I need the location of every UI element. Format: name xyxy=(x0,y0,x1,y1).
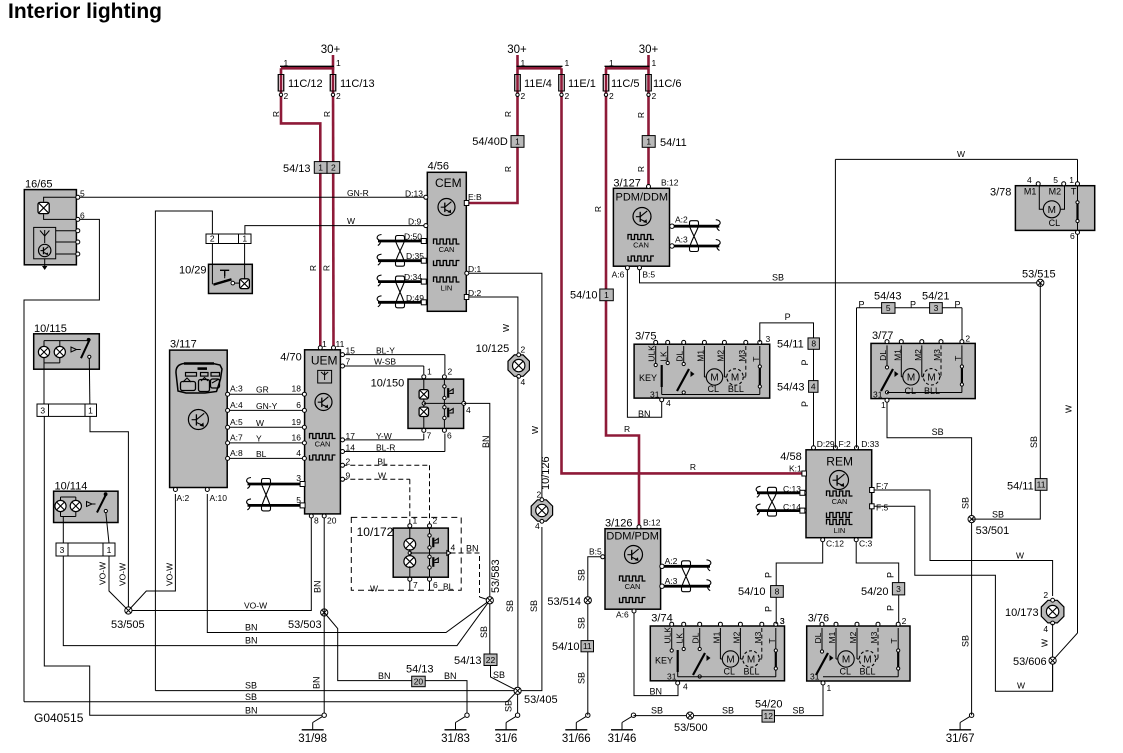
svg-text:53/500: 53/500 xyxy=(674,722,708,734)
svg-text:2: 2 xyxy=(965,334,970,344)
svg-text:2: 2 xyxy=(565,91,570,101)
svg-text:SB: SB xyxy=(504,700,514,712)
svg-text:G040515: G040515 xyxy=(34,711,84,725)
svg-text:A:5: A:5 xyxy=(230,417,243,427)
svg-text:P: P xyxy=(955,300,961,310)
svg-text:53/514: 53/514 xyxy=(547,596,581,608)
svg-text:11: 11 xyxy=(1037,479,1046,489)
svg-text:BN: BN xyxy=(481,435,491,448)
svg-text:54/11: 54/11 xyxy=(1007,481,1034,493)
svg-text:4: 4 xyxy=(1043,624,1048,634)
svg-text:31/67: 31/67 xyxy=(946,733,975,745)
svg-text:8: 8 xyxy=(811,339,816,349)
svg-text:5: 5 xyxy=(80,189,85,199)
svg-text:A:6: A:6 xyxy=(612,270,625,280)
svg-text:P: P xyxy=(785,312,791,322)
svg-text:1: 1 xyxy=(322,339,327,349)
svg-text:1: 1 xyxy=(827,683,832,693)
svg-text:53/515: 53/515 xyxy=(1022,269,1056,281)
svg-text:A:7: A:7 xyxy=(230,432,243,442)
svg-text:CEM: CEM xyxy=(435,176,462,190)
svg-text:BLL: BLL xyxy=(924,386,940,396)
svg-text:54/43: 54/43 xyxy=(777,382,805,394)
svg-text:1: 1 xyxy=(88,406,93,416)
svg-text:2: 2 xyxy=(433,516,438,526)
svg-text:53/501: 53/501 xyxy=(976,525,1010,537)
svg-text:Y: Y xyxy=(256,433,262,443)
svg-text:M: M xyxy=(927,372,935,383)
svg-text:BN: BN xyxy=(312,676,322,689)
svg-text:11E/4: 11E/4 xyxy=(524,78,552,90)
svg-text:DDM/PDM: DDM/PDM xyxy=(606,531,659,543)
svg-text:1: 1 xyxy=(604,290,609,300)
svg-text:6: 6 xyxy=(296,400,301,410)
svg-text:11: 11 xyxy=(336,339,345,349)
svg-text:P: P xyxy=(886,572,896,578)
svg-text:R: R xyxy=(636,166,646,172)
svg-text:W: W xyxy=(256,418,264,428)
svg-text:4: 4 xyxy=(535,521,540,531)
svg-text:2: 2 xyxy=(521,345,526,355)
svg-text:CL: CL xyxy=(724,667,736,677)
svg-text:2: 2 xyxy=(346,456,351,466)
svg-text:3/76: 3/76 xyxy=(808,613,829,625)
svg-text:SB: SB xyxy=(961,497,971,509)
svg-text:2: 2 xyxy=(210,234,215,244)
svg-text:54/40D: 54/40D xyxy=(472,136,508,148)
svg-text:BN: BN xyxy=(650,687,663,697)
svg-text:E:B: E:B xyxy=(468,192,482,202)
svg-text:10/150: 10/150 xyxy=(371,378,405,390)
svg-text:1: 1 xyxy=(881,400,886,410)
svg-text:A:3: A:3 xyxy=(665,576,678,586)
svg-text:1: 1 xyxy=(521,58,526,68)
svg-text:B:12: B:12 xyxy=(643,518,661,528)
svg-text:54/43: 54/43 xyxy=(874,291,902,303)
svg-text:54/20: 54/20 xyxy=(755,699,783,711)
svg-text:2: 2 xyxy=(284,91,289,101)
svg-text:LIN: LIN xyxy=(834,526,846,535)
svg-text:53/583: 53/583 xyxy=(490,559,502,593)
svg-text:1: 1 xyxy=(646,136,651,146)
svg-text:54/13: 54/13 xyxy=(454,655,482,667)
svg-text:R: R xyxy=(308,265,318,271)
svg-text:1: 1 xyxy=(413,516,418,526)
svg-text:C:12: C:12 xyxy=(826,539,844,549)
svg-text:W: W xyxy=(347,216,355,226)
svg-text:GN-R: GN-R xyxy=(347,188,369,198)
svg-text:54/10: 54/10 xyxy=(738,586,766,598)
svg-text:A:4: A:4 xyxy=(230,400,243,410)
svg-text:CL: CL xyxy=(905,386,917,396)
svg-text:A:10: A:10 xyxy=(210,493,228,503)
svg-text:31/98: 31/98 xyxy=(298,733,327,745)
svg-text:SB: SB xyxy=(651,706,663,716)
svg-text:4: 4 xyxy=(683,682,688,692)
svg-text:M: M xyxy=(747,655,755,666)
svg-text:6: 6 xyxy=(1070,231,1075,241)
svg-text:M: M xyxy=(1048,205,1056,216)
svg-text:10/29: 10/29 xyxy=(179,265,207,277)
svg-text:A:8: A:8 xyxy=(230,448,243,458)
svg-text:2: 2 xyxy=(609,91,614,101)
svg-text:12: 12 xyxy=(764,711,774,721)
svg-text:BN: BN xyxy=(245,636,258,646)
svg-text:3/127: 3/127 xyxy=(613,178,641,190)
svg-text:1: 1 xyxy=(318,162,323,172)
svg-text:1: 1 xyxy=(515,136,520,146)
svg-text:20: 20 xyxy=(327,516,337,526)
svg-text:4/56: 4/56 xyxy=(428,161,449,173)
svg-text:R: R xyxy=(503,166,513,172)
svg-text:3/78: 3/78 xyxy=(990,187,1011,199)
svg-text:4: 4 xyxy=(666,398,671,408)
svg-text:10/172: 10/172 xyxy=(357,525,394,539)
svg-text:CAN: CAN xyxy=(625,582,641,591)
svg-text:VO-W: VO-W xyxy=(165,563,175,586)
svg-text:54/11: 54/11 xyxy=(660,137,687,149)
svg-text:11C/5: 11C/5 xyxy=(611,78,640,90)
svg-text:6: 6 xyxy=(433,580,438,590)
svg-text:R: R xyxy=(503,111,513,117)
svg-text:CAN: CAN xyxy=(633,241,649,250)
svg-text:GN-Y: GN-Y xyxy=(256,401,278,411)
svg-text:R: R xyxy=(593,206,603,212)
svg-text:SB: SB xyxy=(961,635,971,647)
svg-text:7: 7 xyxy=(427,431,432,441)
svg-text:GR: GR xyxy=(256,385,269,395)
svg-text:2: 2 xyxy=(1043,590,1048,600)
svg-text:F:5: F:5 xyxy=(876,502,889,512)
svg-text:SB: SB xyxy=(577,672,587,684)
svg-text:UEM: UEM xyxy=(311,354,338,368)
svg-text:1: 1 xyxy=(609,58,614,68)
svg-text:11C/12: 11C/12 xyxy=(288,78,323,90)
svg-text:W: W xyxy=(370,584,378,594)
svg-text:A:6: A:6 xyxy=(616,610,629,620)
svg-text:W: W xyxy=(1064,405,1074,413)
svg-text:53/405: 53/405 xyxy=(524,694,558,706)
svg-text:1: 1 xyxy=(427,367,432,377)
svg-text:11E/1: 11E/1 xyxy=(568,78,596,90)
svg-text:4: 4 xyxy=(521,377,526,387)
svg-text:4: 4 xyxy=(1027,175,1032,185)
svg-text:53/503: 53/503 xyxy=(288,619,322,631)
svg-text:CAN: CAN xyxy=(315,440,331,449)
svg-text:11C/6: 11C/6 xyxy=(653,78,682,90)
svg-text:4: 4 xyxy=(811,381,816,391)
svg-text:9: 9 xyxy=(346,470,351,480)
svg-text:SB: SB xyxy=(479,626,489,638)
svg-text:Y-W: Y-W xyxy=(376,431,392,441)
svg-text:P: P xyxy=(859,300,865,310)
svg-text:6: 6 xyxy=(80,211,85,221)
svg-text:P: P xyxy=(800,401,810,407)
svg-text:6: 6 xyxy=(447,431,452,441)
svg-text:31/83: 31/83 xyxy=(441,733,470,745)
svg-text:31/66: 31/66 xyxy=(562,733,591,745)
svg-text:A:3: A:3 xyxy=(675,235,688,245)
svg-text:R: R xyxy=(322,111,332,117)
svg-text:VO-W: VO-W xyxy=(118,563,128,586)
svg-text:31: 31 xyxy=(650,390,660,400)
svg-text:54/20: 54/20 xyxy=(861,586,889,598)
svg-text:54/10: 54/10 xyxy=(552,641,580,653)
svg-text:M: M xyxy=(863,655,871,666)
svg-text:BLL: BLL xyxy=(728,384,744,394)
svg-text:BN: BN xyxy=(378,671,391,681)
svg-text:11: 11 xyxy=(583,641,592,651)
svg-text:16: 16 xyxy=(292,432,302,442)
svg-text:CL: CL xyxy=(708,384,720,394)
svg-text:M: M xyxy=(907,372,915,383)
svg-text:4: 4 xyxy=(296,448,301,458)
svg-text:31: 31 xyxy=(667,672,677,682)
svg-text:22: 22 xyxy=(486,655,496,665)
svg-text:2: 2 xyxy=(902,616,907,626)
svg-text:5: 5 xyxy=(886,303,891,313)
svg-text:B:5: B:5 xyxy=(589,547,602,557)
svg-text:53/606: 53/606 xyxy=(1013,656,1047,668)
svg-text:14: 14 xyxy=(346,443,356,453)
svg-text:SB: SB xyxy=(992,510,1004,520)
svg-text:M: M xyxy=(726,655,734,666)
svg-text:W: W xyxy=(1040,639,1050,647)
svg-text:SB: SB xyxy=(932,427,944,437)
svg-text:M1: M1 xyxy=(1024,187,1037,197)
svg-text:10/125: 10/125 xyxy=(476,343,510,355)
svg-text:R: R xyxy=(690,462,696,472)
svg-text:SB: SB xyxy=(577,617,587,629)
svg-text:SB: SB xyxy=(245,692,257,702)
svg-text:W: W xyxy=(1016,551,1024,561)
svg-text:D:33: D:33 xyxy=(861,439,879,449)
svg-text:P: P xyxy=(886,605,896,611)
svg-text:BN: BN xyxy=(245,623,258,633)
svg-text:R: R xyxy=(271,111,281,117)
svg-text:M: M xyxy=(731,373,739,384)
svg-text:W: W xyxy=(1017,681,1025,691)
svg-text:W: W xyxy=(501,324,511,332)
svg-text:Interior lighting: Interior lighting xyxy=(8,0,162,23)
svg-text:1: 1 xyxy=(652,58,657,68)
svg-text:BN: BN xyxy=(245,706,258,716)
svg-text:19: 19 xyxy=(292,417,302,427)
svg-text:D:1: D:1 xyxy=(468,264,482,274)
svg-text:R: R xyxy=(624,424,630,434)
svg-text:BL-R: BL-R xyxy=(376,443,395,453)
svg-text:2: 2 xyxy=(521,91,526,101)
svg-text:B:5: B:5 xyxy=(642,270,655,280)
svg-text:4: 4 xyxy=(451,543,456,553)
svg-text:M: M xyxy=(710,373,718,384)
svg-text:2: 2 xyxy=(331,162,336,172)
svg-text:15: 15 xyxy=(346,346,356,356)
svg-text:T: T xyxy=(1071,187,1077,197)
svg-text:SB: SB xyxy=(722,706,734,716)
svg-text:4/58: 4/58 xyxy=(780,451,801,463)
svg-text:SB: SB xyxy=(1029,436,1039,448)
svg-text:1: 1 xyxy=(107,545,112,555)
svg-text:BN: BN xyxy=(444,671,457,681)
svg-text:3: 3 xyxy=(934,303,939,313)
svg-text:1: 1 xyxy=(284,58,289,68)
svg-text:3/74: 3/74 xyxy=(651,613,672,625)
svg-text:10/126: 10/126 xyxy=(540,456,552,490)
svg-text:R: R xyxy=(322,265,332,271)
svg-text:CAN: CAN xyxy=(832,497,848,506)
svg-text:LIN: LIN xyxy=(441,284,453,293)
svg-text:3: 3 xyxy=(40,406,45,416)
svg-text:54/13: 54/13 xyxy=(406,664,434,676)
svg-text:3/126: 3/126 xyxy=(605,518,633,530)
svg-text:BL: BL xyxy=(256,449,267,459)
svg-text:5: 5 xyxy=(1053,175,1058,185)
svg-text:BL-Y: BL-Y xyxy=(376,346,395,356)
svg-text:VO-W: VO-W xyxy=(244,601,267,611)
svg-text:54/13: 54/13 xyxy=(283,163,311,175)
svg-text:BLL: BLL xyxy=(860,667,876,677)
svg-text:A:2: A:2 xyxy=(177,493,190,503)
svg-text:P: P xyxy=(764,606,774,612)
svg-text:A:2: A:2 xyxy=(675,215,688,225)
svg-text:CAN: CAN xyxy=(439,245,455,254)
svg-text:54/11: 54/11 xyxy=(777,339,804,351)
svg-text:1: 1 xyxy=(565,58,570,68)
svg-text:K:1: K:1 xyxy=(789,464,802,474)
svg-text:SB: SB xyxy=(772,273,784,283)
svg-text:A:3: A:3 xyxy=(230,384,243,394)
svg-text:REM: REM xyxy=(826,455,853,469)
svg-text:53/505: 53/505 xyxy=(111,619,145,631)
svg-text:W: W xyxy=(957,149,965,159)
svg-text:16/65: 16/65 xyxy=(25,179,53,191)
svg-text:4: 4 xyxy=(466,405,471,415)
svg-text:30+: 30+ xyxy=(507,44,527,56)
svg-text:W: W xyxy=(530,426,540,434)
svg-text:BLL: BLL xyxy=(744,667,760,677)
svg-text:W-SB: W-SB xyxy=(374,357,396,367)
svg-text:8: 8 xyxy=(775,586,780,596)
svg-text:54/10: 54/10 xyxy=(570,290,598,302)
svg-text:B:12: B:12 xyxy=(661,178,679,188)
svg-text:3/77: 3/77 xyxy=(872,330,893,342)
svg-text:3: 3 xyxy=(896,584,901,594)
svg-text:C:3: C:3 xyxy=(859,539,873,549)
svg-text:M2: M2 xyxy=(1049,187,1062,197)
svg-text:P: P xyxy=(800,359,810,365)
svg-text:2: 2 xyxy=(652,91,657,101)
svg-text:31/46: 31/46 xyxy=(608,733,637,745)
svg-text:7: 7 xyxy=(413,580,418,590)
svg-text:SB: SB xyxy=(245,681,257,691)
svg-text:1: 1 xyxy=(336,58,341,68)
svg-text:20: 20 xyxy=(414,676,424,686)
svg-text:31: 31 xyxy=(810,672,820,682)
svg-text:BN: BN xyxy=(638,409,651,419)
svg-text:R: R xyxy=(636,112,646,118)
svg-text:7: 7 xyxy=(346,357,351,367)
svg-text:BN: BN xyxy=(466,543,479,553)
svg-text:BL: BL xyxy=(443,582,454,592)
svg-text:30+: 30+ xyxy=(321,44,341,56)
svg-text:3/117: 3/117 xyxy=(170,339,197,351)
svg-text:3: 3 xyxy=(766,334,771,344)
svg-text:17: 17 xyxy=(346,431,356,441)
svg-text:D:9: D:9 xyxy=(408,217,422,227)
svg-text:1: 1 xyxy=(242,234,247,244)
svg-text:M: M xyxy=(842,655,850,666)
svg-text:PDM/DDM: PDM/DDM xyxy=(616,192,669,204)
svg-text:10/173: 10/173 xyxy=(1005,607,1039,619)
svg-text:3: 3 xyxy=(780,616,785,626)
svg-text:30+: 30+ xyxy=(639,44,659,56)
svg-text:VO-W: VO-W xyxy=(98,562,108,585)
svg-text:D:13: D:13 xyxy=(405,189,423,199)
svg-text:2: 2 xyxy=(448,367,453,377)
svg-text:D:29: D:29 xyxy=(817,439,835,449)
svg-text:SB: SB xyxy=(529,600,539,612)
svg-text:F:2: F:2 xyxy=(839,439,852,449)
svg-text:3/75: 3/75 xyxy=(635,331,656,343)
svg-text:P: P xyxy=(764,572,774,578)
svg-text:54/21: 54/21 xyxy=(922,291,950,303)
svg-text:SB: SB xyxy=(793,706,805,716)
svg-text:KEY: KEY xyxy=(655,656,673,666)
svg-text:3: 3 xyxy=(60,545,65,555)
svg-text:CL: CL xyxy=(1049,218,1061,228)
svg-text:1: 1 xyxy=(1069,175,1074,185)
svg-text:8: 8 xyxy=(314,516,319,526)
svg-text:KEY: KEY xyxy=(639,373,657,383)
svg-text:SB: SB xyxy=(577,569,587,581)
svg-text:2: 2 xyxy=(336,91,341,101)
svg-text:11C/13: 11C/13 xyxy=(340,78,375,90)
svg-text:31: 31 xyxy=(873,390,883,400)
svg-text:SB: SB xyxy=(493,670,505,680)
svg-text:31/6: 31/6 xyxy=(495,733,517,745)
svg-text:SB: SB xyxy=(505,600,515,612)
svg-text:A:2: A:2 xyxy=(665,556,678,566)
svg-text:W: W xyxy=(378,470,386,480)
svg-text:P: P xyxy=(910,300,916,310)
svg-text:BN: BN xyxy=(313,580,323,593)
svg-text:CL: CL xyxy=(840,667,852,677)
svg-text:18: 18 xyxy=(292,384,302,394)
svg-text:BL: BL xyxy=(377,456,388,466)
svg-text:4/70: 4/70 xyxy=(280,352,301,364)
